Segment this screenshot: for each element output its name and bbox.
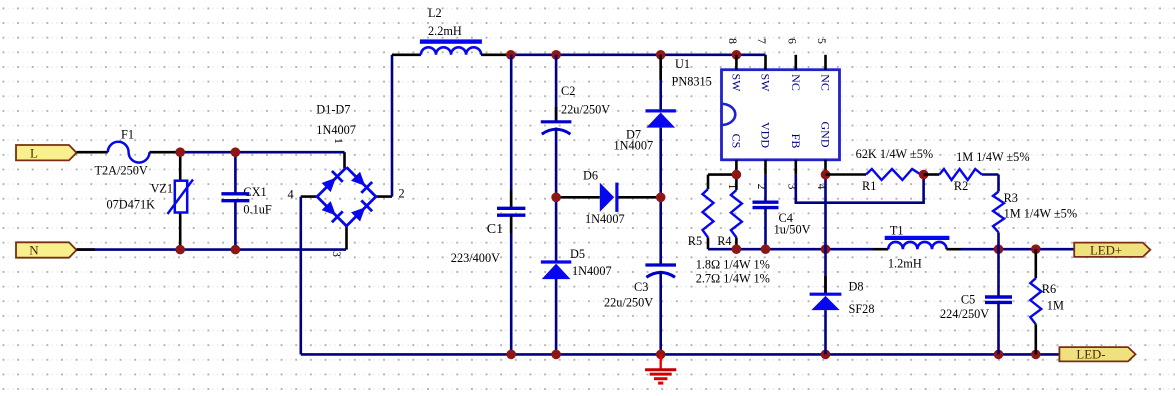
svg-text:CS: CS: [729, 134, 743, 149]
svg-text:R3: R3: [1004, 191, 1018, 205]
svg-text:1M 1/4W ±5%: 1M 1/4W ±5%: [956, 150, 1029, 164]
svg-text:4: 4: [288, 187, 294, 201]
svg-text:07D471K: 07D471K: [107, 198, 156, 212]
svg-text:R2: R2: [954, 179, 968, 193]
svg-text:2.2mH: 2.2mH: [428, 24, 462, 38]
svg-text:1.2mH: 1.2mH: [888, 257, 922, 271]
svg-text:R4: R4: [717, 234, 731, 248]
svg-text:D8: D8: [849, 280, 864, 294]
svg-text:1M: 1M: [1047, 299, 1064, 313]
svg-text:62K 1/4W ±5%: 62K 1/4W ±5%: [856, 147, 934, 161]
svg-text:R1: R1: [862, 179, 876, 193]
svg-text:PN8315: PN8315: [672, 75, 712, 89]
svg-text:SW: SW: [729, 74, 743, 93]
svg-text:1.8Ω 1/4W 1%: 1.8Ω 1/4W 1%: [696, 258, 770, 272]
svg-text:2: 2: [399, 187, 405, 201]
svg-text:D6: D6: [583, 169, 598, 183]
svg-text:1N4007: 1N4007: [585, 212, 625, 226]
svg-text:FB: FB: [789, 134, 803, 149]
svg-text:SF28: SF28: [849, 302, 875, 316]
svg-text:NC: NC: [789, 74, 803, 91]
svg-text:VDD: VDD: [759, 122, 773, 148]
svg-text:3: 3: [330, 251, 342, 257]
svg-text:224/250V: 224/250V: [940, 307, 989, 321]
svg-text:C5: C5: [961, 292, 975, 306]
svg-text:C2: C2: [561, 84, 575, 98]
svg-text:0.1uF: 0.1uF: [243, 203, 272, 217]
svg-text:LED-: LED-: [1076, 348, 1105, 362]
svg-text:22u/250V: 22u/250V: [604, 296, 653, 310]
svg-text:NC: NC: [819, 74, 833, 91]
svg-text:R6: R6: [1042, 282, 1056, 296]
svg-text:CX1: CX1: [243, 185, 266, 199]
svg-text:1N4007: 1N4007: [614, 139, 654, 153]
svg-text:L: L: [30, 145, 38, 160]
svg-text:T1: T1: [890, 224, 904, 238]
svg-text:C3: C3: [634, 280, 648, 294]
svg-text:C1: C1: [487, 222, 503, 237]
svg-text:F1: F1: [121, 128, 134, 142]
svg-text:1N4007: 1N4007: [316, 123, 356, 137]
svg-text:GND: GND: [819, 122, 833, 148]
svg-text:LED+: LED+: [1090, 243, 1122, 257]
svg-text:6: 6: [785, 38, 797, 44]
svg-text:1M 1/4W ±5%: 1M 1/4W ±5%: [1004, 206, 1077, 220]
svg-text:223/400V: 223/400V: [451, 251, 500, 265]
svg-text:VZ1: VZ1: [151, 182, 174, 196]
svg-text:5: 5: [815, 38, 827, 44]
svg-text:1u/50V: 1u/50V: [774, 223, 811, 237]
svg-text:2.7Ω 1/4W 1%: 2.7Ω 1/4W 1%: [696, 271, 770, 285]
svg-text:7: 7: [755, 38, 767, 44]
svg-text:1: 1: [332, 138, 344, 144]
svg-text:22u/250V: 22u/250V: [561, 103, 610, 117]
svg-text:D1-D7: D1-D7: [316, 103, 350, 117]
svg-text:U1: U1: [675, 57, 690, 71]
svg-text:D5: D5: [570, 247, 585, 261]
svg-text:8: 8: [726, 38, 738, 44]
svg-text:T2A/250V: T2A/250V: [95, 164, 148, 178]
svg-text:1N4007: 1N4007: [572, 264, 612, 278]
svg-text:L2: L2: [428, 6, 442, 20]
svg-text:SW: SW: [759, 74, 773, 93]
svg-text:N: N: [29, 243, 39, 258]
svg-text:R5: R5: [688, 234, 702, 248]
